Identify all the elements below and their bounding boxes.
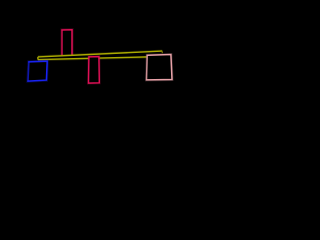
quad Q2 yellow slab upper edge core [38,51,162,57]
quad Q4 magenta rectangle glow [89,57,100,84]
quad Q3 blue left edge dim overlay [27,63,30,81]
quad Q1 red tall rectangle glow [62,30,72,57]
quad Q3 blue quad interior fill [28,61,47,81]
quad Q1 red tall rectangle core [62,30,72,57]
quad Q2 yellow slab lower edge core [38,57,162,60]
quad Q4 magenta rectangle core [89,57,100,84]
quad Q2 yellow slab fill (black interior) [38,51,162,60]
quad Q5 pink left edge dim overlay [146,56,149,79]
quad Q3 blue quad glow [28,61,47,81]
quad Q3 blue quad core [28,61,47,81]
quad Q1 red tall rectangle interior fill [62,30,72,57]
quad Q2 yellow slab lower edge glow [38,57,162,60]
quad Q5 pink rectangle core [147,55,173,80]
quad Q5 pink rectangle glow [147,55,173,80]
quad Q2 yellow slab right end edge [161,51,163,53]
quad Q2 yellow slab left end edge [37,57,39,60]
quad Q5 pink rectangle interior fill [147,55,173,80]
quad Q2 yellow slab upper edge glow [38,51,162,57]
quad Q1 red left edge dim overlay [61,31,63,55]
quad Q4 magenta rectangle interior fill [89,57,100,84]
